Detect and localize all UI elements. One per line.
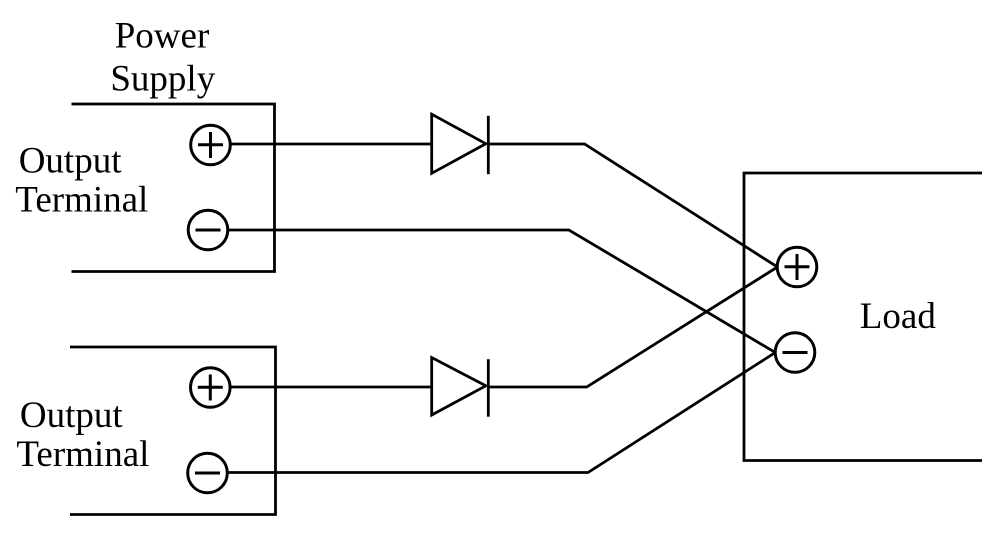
PS2 positive terminal (+) — [191, 368, 231, 408]
svg-text:Terminal: Terminal — [16, 434, 149, 475]
wire W3b: diode D2 cathode to Load + (bend then diagonal up) — [488, 267, 777, 387]
wire W1b: diode D1 cathode to Load + (bend then diagonal) — [488, 144, 777, 267]
PS1 positive terminal (+) — [191, 125, 231, 165]
wire W2: PS1 - to Load - (bend then diagonal) — [227, 230, 775, 352]
svg-text:Terminal: Terminal — [15, 179, 148, 220]
power supply PS2 box (open left) — [70, 347, 276, 515]
power supply PS1 box (open left) — [72, 104, 275, 272]
svg-text:Output: Output — [20, 395, 124, 436]
diode D2 — [432, 358, 489, 417]
PS1 negative terminal (-) — [188, 210, 228, 250]
wire W3a: PS2 + to diode D2 anode — [229, 386, 432, 389]
PS2 negative terminal (-) — [188, 453, 228, 493]
diode D1 — [432, 114, 489, 174]
svg-text:Output: Output — [19, 140, 123, 181]
wire W4: PS2 - to Load - (bend then diagonal up) — [227, 353, 775, 473]
Load positive terminal (+) — [777, 247, 817, 287]
label: Power Supply — [110, 16, 215, 100]
svg-text:Power: Power — [115, 16, 210, 57]
load box (open right) — [744, 173, 982, 461]
label: Output Terminal (PS1) — [15, 140, 148, 220]
Load negative terminal (-) — [775, 333, 815, 373]
wire W1a: PS1 + to diode D1 anode — [229, 143, 432, 146]
svg-text:Supply: Supply — [110, 59, 215, 100]
label: Output Terminal (PS2) — [16, 395, 149, 475]
svg-text:Load: Load — [860, 296, 937, 337]
